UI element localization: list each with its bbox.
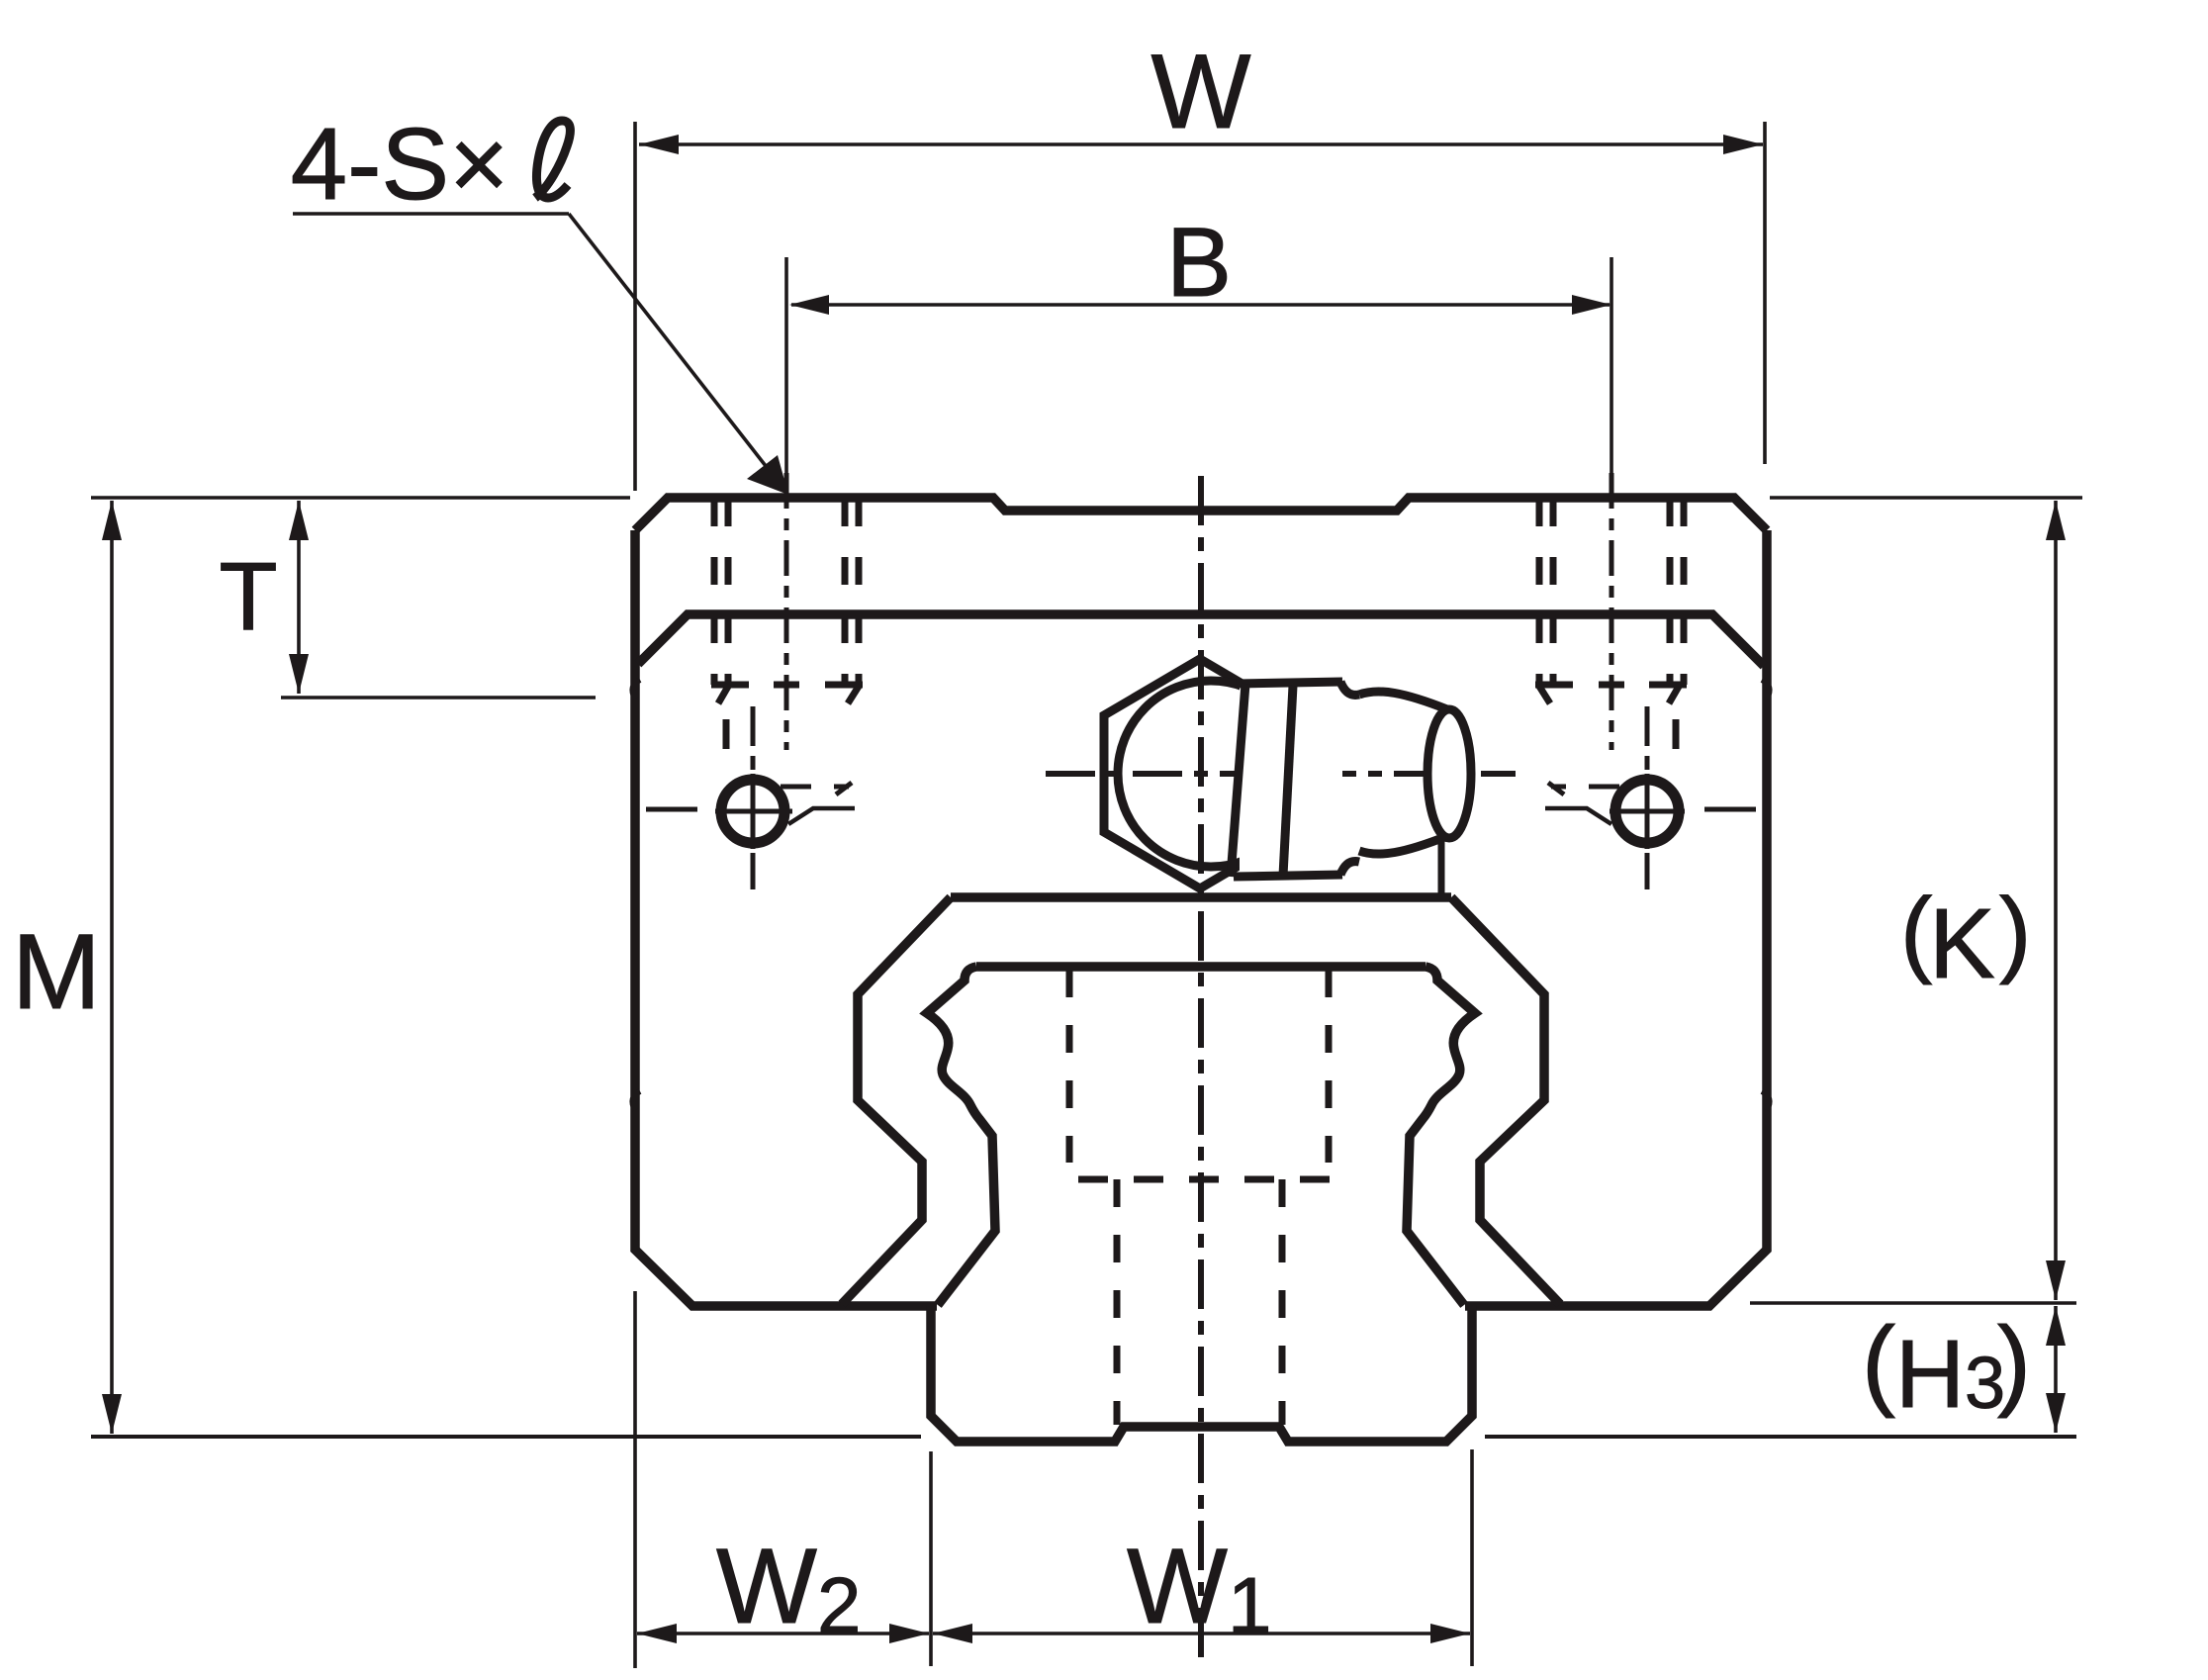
dimension W dim line <box>639 142 1763 146</box>
left hole pilot hidden dash <box>723 719 730 749</box>
right screw hole centerline <box>1610 473 1614 750</box>
dimension H3 bottom arrowhead <box>2046 1393 2066 1433</box>
left side hole circle horizontal centerline dash <box>646 807 697 812</box>
svg-text:K: K <box>1929 888 1995 999</box>
grease nipple thread line 1 <box>1231 684 1245 877</box>
right screw hole thread-end marks <box>1535 682 1573 689</box>
rail outline <box>927 967 1475 1305</box>
grease nipple tip ellipse <box>1427 709 1471 838</box>
dimension W2 left arrowhead <box>637 1624 677 1643</box>
dimension B right extension line <box>1610 257 1613 473</box>
dimension B right arrowhead <box>1572 295 1611 315</box>
left upper dash marks <box>781 785 811 790</box>
left screw hole thread-end marks <box>711 682 749 689</box>
dimension W1 dim line <box>933 1632 1470 1635</box>
grease nipple cap top edge <box>1359 692 1447 709</box>
grease nipple thread cylinder mask <box>1240 682 1342 877</box>
left screw hole centerline <box>784 473 789 750</box>
block inner cavity left profile <box>842 897 951 1304</box>
dimension W right arrowhead <box>1723 135 1763 154</box>
left circle leader <box>788 808 855 824</box>
svg-text:): ) <box>1997 1306 2031 1419</box>
right screw hole hidden lines <box>1536 499 1543 685</box>
dimension K top extension line <box>1770 496 2082 500</box>
rail bolt counterbore bottom hidden line <box>1078 1176 1331 1183</box>
script ell glyph <box>535 121 570 198</box>
dimension T bottom reference line <box>281 696 596 700</box>
main vertical centerline <box>1198 476 1204 1666</box>
svg-text:T: T <box>219 542 277 650</box>
dimension W right extension line <box>1763 122 1767 464</box>
grease nipple thread bottom edge <box>1234 875 1342 877</box>
svg-text:M: M <box>12 911 101 1031</box>
left edge seal nick lower <box>632 1091 640 1110</box>
block outline <box>635 498 1767 1306</box>
dimension K bottom arrowhead <box>2046 1260 2066 1300</box>
grease nipple neck bottom <box>1340 862 1359 875</box>
dimension T top arrowhead <box>289 501 309 540</box>
grease nipple thread top edge <box>1237 682 1342 684</box>
dimension W2 right arrowhead <box>889 1624 929 1643</box>
dimension W1 left arrowhead <box>933 1624 972 1643</box>
dimension K dim line <box>2054 501 2058 1300</box>
left edge seal nick upper <box>632 680 640 699</box>
left circle cross vertical <box>751 774 756 849</box>
right edge seal nick lower <box>1762 1091 1770 1110</box>
rail bolt counterbore hidden lines <box>1066 970 1073 1163</box>
dimension H3 dim line <box>2054 1306 2058 1433</box>
nipple boss edge line <box>1438 838 1445 895</box>
dimension K bottom extension line <box>1750 1301 2076 1305</box>
leader arrowhead <box>747 455 788 495</box>
dimension T dim line <box>297 501 301 694</box>
grease nipple cap bottom edge <box>1359 836 1447 854</box>
block retainer step line (T line) <box>638 614 1764 666</box>
left screw hole hidden lines <box>711 499 718 685</box>
grease nipple hex <box>1104 659 1296 888</box>
dimension W2 left extension line <box>633 1291 637 1668</box>
dimension K top arrowhead <box>2046 501 2066 540</box>
dimension H3 top arrowhead <box>2046 1306 2066 1346</box>
left side hole circle <box>721 780 784 843</box>
grease nipple neck top <box>1340 682 1359 695</box>
dimension W left arrowhead <box>639 135 679 154</box>
right circle cross vertical <box>1645 774 1650 849</box>
dimension W2 dim line <box>637 1632 929 1635</box>
leader underline for 4-S×ℓ <box>293 212 569 216</box>
right side hole circle horizontal centerline dash <box>1704 807 1756 812</box>
dimension W1 right arrowhead <box>1430 1624 1470 1643</box>
dimension M top extension line <box>91 496 630 500</box>
svg-text:B: B <box>1166 207 1232 317</box>
block inner cavity right profile <box>1451 897 1560 1304</box>
right circle leader <box>1545 808 1611 824</box>
right edge seal nick upper <box>1762 680 1770 699</box>
right side hole circle vertical centerline <box>1645 706 1650 889</box>
dimension M dim line <box>110 501 114 1434</box>
dimension T bottom arrowhead <box>289 654 309 694</box>
left circle cross horizontal <box>715 809 792 814</box>
svg-text:H: H <box>1895 1320 1965 1428</box>
dimension W1 right extension line <box>1470 1449 1474 1666</box>
block inner cavity top <box>951 892 1451 902</box>
nipple horizontal centerline <box>1046 771 1516 777</box>
svg-text:(: ( <box>1862 1306 1895 1419</box>
rail lower sides and bottom <box>931 1306 1472 1442</box>
dimension M bottom arrowhead <box>102 1394 122 1434</box>
left side hole circle vertical centerline <box>751 706 756 889</box>
svg-text:): ) <box>1999 878 2031 985</box>
svg-text:4-S×: 4-S× <box>291 107 508 221</box>
right circle cross horizontal <box>1610 809 1685 814</box>
right hole pilot hidden dash <box>1673 719 1680 749</box>
right side hole circle <box>1615 780 1679 843</box>
dimension B dim line <box>791 303 1610 307</box>
grease nipple thread line 2 <box>1283 686 1293 876</box>
svg-text:W: W <box>1151 32 1251 150</box>
dimension W left extension line <box>633 122 637 491</box>
right upper dash marks <box>1589 785 1619 790</box>
datum ground line (bottom mounting surface) <box>91 1435 921 1439</box>
rail bolt hole hidden lines <box>1114 1179 1121 1425</box>
dimension B left extension line <box>784 257 788 473</box>
svg-text:(: ( <box>1900 878 1932 985</box>
dimension M top arrowhead <box>102 501 122 540</box>
leader line to screw hole <box>569 214 777 480</box>
dimension W2/W1 shared extension line (rail left side) <box>929 1451 933 1666</box>
grease nipple ball <box>1118 681 1304 867</box>
dimension B left arrowhead <box>789 295 829 315</box>
